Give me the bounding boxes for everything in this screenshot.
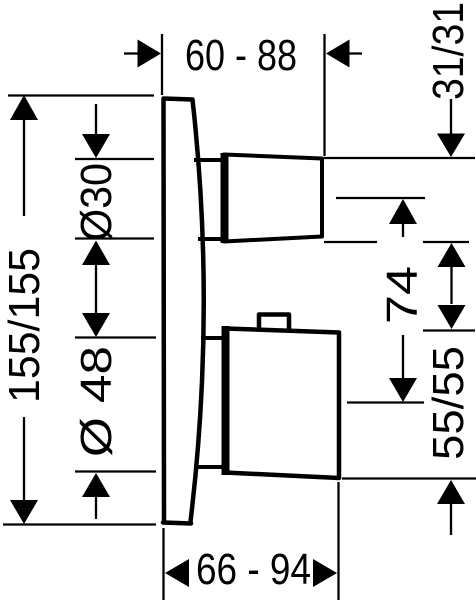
dim text Ø30 bbox=[72, 163, 121, 241]
top knob top edge extension line bbox=[324, 157, 475, 159]
dim text 74 bbox=[378, 266, 427, 324]
bottom knob bottom edge extension line (left) bbox=[75, 470, 156, 472]
Ø30/Ø48 shared arrows (left) bbox=[82, 241, 110, 338]
dim 155/155 bottom arrow bbox=[10, 417, 38, 524]
bottom knob axis line bbox=[347, 401, 424, 403]
dim 66-94 left arrow bbox=[165, 559, 189, 587]
top knob axis line bbox=[336, 197, 425, 199]
svg-text:66 - 94: 66 - 94 bbox=[196, 545, 311, 594]
bottom knob top edge extension line (left) bbox=[75, 336, 156, 338]
bottom knob body bbox=[225, 326, 339, 478]
dim 55/55 bottom arrow bbox=[437, 480, 465, 535]
svg-text:74: 74 bbox=[378, 266, 427, 324]
dim text 55/55 bbox=[424, 346, 473, 460]
top knob neck bbox=[194, 160, 227, 239]
dim 60-88 right arrow bbox=[326, 40, 362, 68]
dim 66-94 right extension line bbox=[337, 482, 339, 600]
dim text Ø 48 bbox=[72, 346, 121, 457]
dim 66-94 right arrow bbox=[313, 559, 337, 587]
bottom knob bottom edge extension line (right) bbox=[342, 477, 476, 479]
svg-text:Ø30: Ø30 bbox=[72, 163, 121, 241]
dim text 155/155 bbox=[0, 248, 49, 403]
dim 31/31 arrow down bbox=[437, 99, 465, 157]
dim Ø30 top arrow bbox=[82, 104, 110, 158]
top knob bottom edge extension lines bbox=[324, 241, 469, 243]
svg-text:155/155: 155/155 bbox=[0, 248, 49, 403]
safety-stop tab on bottom knob bbox=[259, 315, 289, 334]
top knob bottom edge extension line (left) bbox=[75, 237, 154, 239]
dim 74 top arrow bbox=[389, 199, 417, 237]
dim 155/155 top arrow bbox=[10, 95, 38, 216]
escutcheon plate (side view) bbox=[163, 99, 204, 524]
dim 31/31 text bbox=[424, 2, 473, 100]
dim 66-94 left extension line bbox=[162, 528, 164, 600]
top knob body bbox=[224, 153, 322, 243]
dim text 60-88 bbox=[185, 31, 297, 80]
dim 74 bottom arrow bbox=[389, 335, 417, 402]
bottom knob top edge extension line (right) bbox=[423, 329, 475, 331]
svg-text:55/55: 55/55 bbox=[424, 346, 473, 460]
top knob top edge extension line (left) bbox=[75, 158, 154, 160]
dim 60-88 left extension line bbox=[161, 34, 163, 95]
svg-text:60 - 88: 60 - 88 bbox=[185, 31, 297, 80]
plate top extension line (left) bbox=[8, 94, 154, 96]
bottom knob neck bbox=[196, 338, 228, 467]
gap arrows between knobs (right) bbox=[438, 243, 466, 329]
plate bottom extension line (left) bbox=[3, 523, 156, 525]
dim text 66-94 bbox=[196, 545, 311, 594]
dim 60-88 right extension line bbox=[323, 34, 325, 156]
dim 60-88 left arrow bbox=[124, 40, 161, 68]
svg-text:Ø 48: Ø 48 bbox=[72, 346, 121, 457]
svg-text:31/31: 31/31 bbox=[424, 2, 473, 100]
dim Ø48 bottom arrow bbox=[82, 473, 110, 519]
